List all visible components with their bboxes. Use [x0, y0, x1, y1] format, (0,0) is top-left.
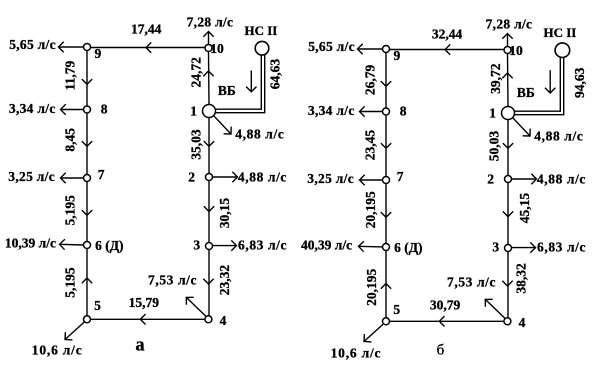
label 3,34 л/с': [308, 103, 355, 118]
label 5: [94, 298, 101, 313]
label 6 (Д)': [394, 240, 422, 255]
label 30,15: [217, 198, 232, 229]
flow direction arrow ↓ (conduit): [246, 71, 256, 92]
svg-text:64,63: 64,63: [268, 59, 283, 90]
svg-text:10,39 л/с: 10,39 л/с: [5, 236, 56, 251]
diagram б (right network): [301, 17, 587, 361]
wire 10-9': [386, 49, 505, 51]
svg-text:НС II: НС II: [245, 23, 278, 38]
label 10: [210, 41, 224, 56]
label 38,32': [514, 263, 529, 294]
label 3,25 л/с: [8, 169, 55, 184]
wire 9-8-7-6-5' (left main): [385, 53, 387, 318]
node 5': [383, 318, 390, 325]
withdrawal arrow at 8': [360, 106, 383, 116]
diagram а (left network): [5, 15, 287, 358]
node 2': [505, 176, 512, 183]
label 35,03: [189, 129, 204, 160]
svg-text:5,195: 5,195: [63, 267, 78, 298]
svg-text:39,72: 39,72: [488, 63, 503, 94]
label 64,63: [268, 59, 283, 90]
label 7,28 л/с': [486, 17, 533, 32]
label 20,195': [364, 268, 379, 305]
flow arrow 3→4: [203, 279, 213, 284]
svg-text:ВБ: ВБ: [517, 85, 535, 100]
svg-text:32,44: 32,44: [432, 27, 463, 42]
withdrawal arrow at 8: [61, 104, 84, 114]
label 3,25 л/с': [307, 171, 354, 186]
svg-text:ВБ: ВБ: [218, 83, 236, 98]
flow arrow 2→3: [204, 206, 214, 211]
label 2': [487, 172, 494, 187]
svg-text:5,65 л/с: 5,65 л/с: [308, 39, 355, 54]
svg-text:23,32: 23,32: [217, 265, 232, 296]
svg-text:45,15: 45,15: [517, 193, 532, 224]
label 2: [188, 170, 195, 185]
label 5,195: [63, 195, 78, 226]
flow arrow 1→10: [203, 71, 213, 76]
svg-text:17,44: 17,44: [131, 22, 162, 37]
label 9: [95, 46, 102, 61]
label 94,63': [572, 67, 587, 98]
withdrawal arrow at 3': [512, 242, 536, 252]
node 6 (Д)': [383, 244, 390, 251]
svg-text:2: 2: [188, 170, 195, 185]
label 20,195': [363, 191, 378, 228]
svg-text:7: 7: [98, 167, 105, 182]
node 4: [205, 316, 212, 323]
node 1 (ВБ water tower): [203, 105, 216, 118]
svg-text:5: 5: [393, 302, 400, 317]
withdrawal arrow at 2: [213, 172, 238, 182]
pump station НС II: [255, 41, 269, 55]
svg-text:7,28 л/с: 7,28 л/с: [187, 15, 234, 30]
svg-text:6 (Д): 6 (Д): [394, 240, 422, 255]
label ВБ': [517, 85, 535, 100]
svg-text:7,53 л/с: 7,53 л/с: [447, 274, 496, 289]
label 23,32: [217, 265, 232, 296]
withdrawal arrow at 10: [203, 32, 213, 45]
label НС II': [544, 25, 577, 40]
label 4,88 л/с at 1': [534, 128, 583, 143]
node 9: [84, 44, 91, 51]
flow arrow 5→6': [381, 284, 391, 289]
svg-text:26,79: 26,79: [362, 64, 377, 95]
svg-text:7,28 л/с: 7,28 л/с: [486, 17, 533, 32]
label 45,15': [517, 193, 532, 224]
svg-text:4: 4: [519, 315, 526, 330]
svg-text:3,25 л/с: 3,25 л/с: [307, 171, 354, 186]
node 7: [84, 175, 91, 182]
label 8: [101, 101, 108, 116]
svg-text:а: а: [135, 336, 144, 356]
svg-text:35,03: 35,03: [189, 129, 204, 160]
withdrawal arrow at 6: [60, 239, 84, 250]
wire 1-10: [208, 52, 211, 105]
label 10': [509, 43, 523, 58]
wire 10-9: [87, 47, 206, 49]
flow arrow 10→9: [146, 42, 151, 52]
label 32,44': [432, 27, 463, 42]
node 4': [504, 318, 511, 325]
pump station НС II': [555, 43, 570, 58]
label 8,45: [63, 128, 78, 152]
withdrawal arrow at 6': [359, 241, 383, 252]
node 7': [383, 177, 390, 184]
flow arrow 4→5': [439, 316, 444, 326]
label 50,03': [487, 131, 502, 162]
svg-text:10: 10: [210, 41, 224, 56]
label 4,88 л/с at 2: [238, 170, 287, 185]
label 4: [220, 313, 227, 328]
label 39,72': [488, 63, 503, 94]
label НС II: [245, 23, 278, 38]
label 5': [393, 302, 400, 317]
svg-text:1: 1: [190, 103, 197, 118]
svg-text:6,83 л/с: 6,83 л/с: [238, 237, 287, 252]
svg-text:4,88 л/с: 4,88 л/с: [537, 172, 586, 187]
withdrawal arrow at 1: [213, 115, 231, 134]
label 10,6 л/с: [32, 342, 83, 357]
wire 9-8-7-6-5 (left main): [86, 51, 88, 316]
withdrawal arrow at 1': [512, 117, 530, 136]
svg-text:6,83 л/с: 6,83 л/с: [537, 239, 586, 254]
node 1 (ВБ water tower)': [502, 107, 515, 120]
caption б: [437, 343, 445, 359]
node 5: [84, 316, 91, 323]
svg-text:11,79: 11,79: [63, 60, 78, 90]
label ВБ: [218, 83, 236, 98]
label 3: [193, 238, 200, 253]
label 5,65 л/с: [9, 37, 56, 52]
conduit НС II→1' double line: [514, 57, 563, 115]
wire 4-5' (bottom main): [390, 320, 505, 322]
svg-text:5: 5: [94, 298, 101, 313]
svg-text:30,79: 30,79: [430, 298, 461, 313]
label 5,65 л/с': [308, 39, 355, 54]
label 24,72: [189, 57, 204, 88]
withdrawal arrow at 4': [485, 299, 505, 318]
withdrawal arrow at 9: [59, 42, 84, 52]
flow arrow 4→5: [140, 314, 145, 324]
svg-text:3,34 л/с: 3,34 л/с: [9, 101, 56, 116]
label 4': [519, 315, 526, 330]
svg-text:15,79: 15,79: [129, 295, 160, 310]
wire 1-2-3-4 (right main): [208, 118, 210, 316]
svg-text:8: 8: [101, 101, 108, 116]
svg-text:2: 2: [487, 172, 494, 187]
withdrawal arrow at 10': [502, 34, 512, 47]
withdrawal arrow at 3: [213, 240, 237, 250]
node 10: [205, 45, 212, 52]
label 10,6 л/с': [331, 346, 382, 361]
label 1: [190, 103, 197, 118]
svg-text:10: 10: [509, 43, 523, 58]
flow arrow 10→9': [445, 44, 450, 54]
svg-text:3: 3: [193, 238, 200, 253]
svg-text:20,195: 20,195: [363, 191, 378, 228]
svg-text:4: 4: [220, 313, 227, 328]
svg-text:40,39 л/с: 40,39 л/с: [301, 238, 352, 253]
withdrawal arrow at 7: [61, 173, 84, 183]
withdrawal arrow at 5: [65, 322, 85, 340]
label 8': [400, 103, 407, 118]
node 2: [206, 174, 213, 181]
node 8': [383, 108, 390, 115]
svg-text:7,53 л/с: 7,53 л/с: [148, 272, 197, 287]
svg-text:5,195: 5,195: [63, 195, 78, 226]
label 7,53 л/с': [447, 274, 496, 289]
caption а: [135, 336, 144, 356]
svg-text:4,88 л/с: 4,88 л/с: [534, 128, 583, 143]
label 17,44: [131, 22, 162, 37]
conduit НС II→1 double line: [215, 54, 264, 112]
wire 1-2-3-4' (right main): [507, 120, 509, 318]
label 4,88 л/с at 1: [235, 126, 284, 141]
svg-text:6 (Д): 6 (Д): [95, 238, 123, 253]
svg-text:4,88 л/с: 4,88 л/с: [235, 126, 284, 141]
svg-text:9: 9: [95, 46, 102, 61]
label 30,79': [430, 298, 461, 313]
svg-text:5,65 л/с: 5,65 л/с: [9, 37, 56, 52]
flow arrow 2→3': [503, 211, 513, 216]
svg-text:30,15: 30,15: [217, 198, 232, 229]
label 7,28 л/с: [187, 15, 234, 30]
flow arrow 8→7': [381, 143, 391, 148]
withdrawal arrow at 4: [186, 297, 206, 316]
node 3: [206, 243, 213, 250]
svg-text:24,72: 24,72: [189, 57, 204, 88]
svg-text:10,6 л/с: 10,6 л/с: [32, 342, 83, 357]
label 7': [397, 169, 404, 184]
svg-text:9: 9: [394, 48, 401, 63]
label 9': [394, 48, 401, 63]
label 6 (Д): [95, 238, 123, 253]
node 3': [505, 245, 512, 252]
flow arrow 1→2': [503, 143, 513, 148]
label 3,34 л/с: [9, 101, 56, 116]
flow arrow 9→8': [381, 81, 391, 86]
svg-text:3: 3: [492, 240, 499, 255]
svg-text:7: 7: [397, 169, 404, 184]
label 15,79: [129, 295, 160, 310]
label 7: [98, 167, 105, 182]
node 10': [504, 47, 511, 54]
flow arrow 7→6: [82, 210, 92, 215]
label 1': [489, 105, 496, 120]
svg-text:3,25 л/с: 3,25 л/с: [8, 169, 55, 184]
flow arrow 1→2: [204, 141, 214, 146]
flow arrow 3→4': [502, 281, 512, 286]
label 3': [492, 240, 499, 255]
svg-text:1: 1: [489, 105, 496, 120]
withdrawal arrow at 2': [512, 174, 537, 184]
label 4,88 л/с at 2': [537, 172, 586, 187]
label 5,195: [63, 267, 78, 298]
svg-text:94,63: 94,63: [572, 67, 587, 98]
svg-text:20,195: 20,195: [364, 268, 379, 305]
svg-text:23,45: 23,45: [363, 130, 378, 161]
node 8: [84, 106, 91, 113]
label 23,45': [363, 130, 378, 161]
label 6,83 л/с': [537, 239, 586, 254]
flow arrow 9→8: [82, 79, 92, 84]
label 7,53 л/с: [148, 272, 197, 287]
node 6 (Д): [84, 242, 91, 249]
svg-text:НС II: НС II: [544, 25, 577, 40]
svg-text:50,03: 50,03: [487, 131, 502, 162]
label 10,39 л/с: [5, 236, 56, 251]
svg-text:8: 8: [400, 103, 407, 118]
svg-text:4,88 л/с: 4,88 л/с: [238, 170, 287, 185]
flow arrow 7→6': [381, 212, 391, 217]
withdrawal arrow at 7': [360, 175, 383, 185]
flow direction arrow ↓ (conduit)': [545, 70, 555, 93]
flow arrow 8→7: [82, 141, 92, 146]
svg-text:10,6 л/с: 10,6 л/с: [331, 346, 382, 361]
label 11,79: [63, 60, 78, 90]
withdrawal arrow at 5': [364, 324, 384, 342]
label 40,39 л/с': [301, 238, 352, 253]
svg-text:8,45: 8,45: [63, 128, 78, 152]
svg-text:3,34 л/с: 3,34 л/с: [308, 103, 355, 118]
node 9': [383, 46, 390, 53]
withdrawal arrow at 9': [358, 44, 383, 54]
wire 4-5 (bottom main): [91, 318, 206, 320]
flow arrow 5→6: [82, 278, 92, 283]
svg-text:38,32: 38,32: [514, 263, 529, 294]
wire 1-10': [507, 54, 510, 107]
flow arrow 1→10': [502, 73, 512, 78]
svg-text:б: б: [437, 343, 445, 359]
label 26,79': [362, 64, 377, 95]
label 6,83 л/с: [238, 237, 287, 252]
